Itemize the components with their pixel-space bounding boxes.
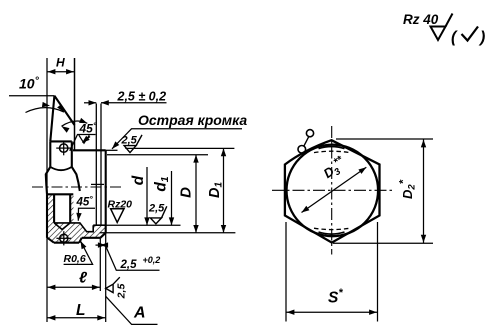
arc center mark (bottom) [56,231,71,245]
dashed thread arc bottom [314,228,350,229]
roughness check 2,5 on L1 [121,135,143,153]
flange top edge + extension [73,149,106,151]
label R0,6 with leader [64,241,93,265]
label 10 degrees with leader [9,75,54,96]
leader to label A [106,296,158,324]
svg-text:): ) [478,29,485,46]
dimension line d1 [153,171,175,225]
extension line L3 (D top) [107,154,208,156]
svg-text:d1: d1 [153,176,172,191]
dimension D2 [398,139,427,243]
svg-text:S*: S* [328,287,343,307]
svg-text:10°: 10° [19,75,40,92]
inscribed circle [287,145,379,237]
svg-text:45°: 45° [79,121,97,136]
svg-text:D2*: D2* [398,179,418,199]
bore line B1 + extension [93,224,106,226]
extension line: head left face / H,l,L left extension [46,58,48,322]
section hatching (head and flange cut area) [47,194,105,242]
dimension H [47,56,75,75]
svg-text:L: L [76,302,85,319]
svg-text:2,5: 2,5 [120,259,138,271]
angle arc 45 degrees (upper) [62,118,97,136]
dimension L [47,302,106,321]
chamfer arc top [319,147,345,149]
head face top edge [50,140,72,142]
dimension D3 diagonal [302,153,367,212]
S extension lines [285,222,287,322]
svg-text:(: ( [451,29,458,46]
head silhouette flares [46,167,80,194]
arc center mark (top) [56,141,71,155]
svg-text:D: D [178,187,195,198]
socket walls [54,194,70,223]
dimension line d [130,167,150,225]
axis center line (left view) [32,186,122,188]
center line horizontal [272,189,393,191]
socket bottom and drill point [54,223,70,230]
short thread line [91,183,104,185]
roughness Rz20 [108,199,133,223]
chamfer arc bottom [319,232,345,234]
head face chamfer arc [50,167,72,170]
sharp edge balloon marker [298,130,314,154]
label 45 degrees (lower) with leader [76,194,96,221]
svg-text:Острая кромка: Острая кромка [138,112,247,128]
boss edge verticals / extensions for 2,5 dim [95,104,97,226]
svg-text:R0,6: R0,6 [64,253,86,265]
extension line: H right / flange junction [74,58,76,150]
svg-text:ℓ: ℓ [79,270,88,287]
svg-text:d: d [130,175,147,185]
svg-text:2,5: 2,5 [121,135,138,147]
head outline: top taper and chamfer [50,96,74,142]
svg-text:2,5 ± 0,2: 2,5 ± 0,2 [117,90,167,104]
head left face (section) [46,194,48,238]
head bottom edge [54,242,79,244]
svg-text:45°: 45° [76,194,94,209]
svg-text:D1: D1 [207,182,225,198]
parenthesized check [451,27,485,47]
flange right face + lower extension [105,150,107,233]
angle arc 10 degrees [26,102,65,113]
general roughness Rz40 [403,12,453,40]
extension line L1 (D1 top) [125,147,234,149]
section boundary line [47,193,73,195]
svg-text:2,5: 2,5 [148,203,165,215]
dimension 2,5 +-0,2 (top) [84,90,167,106]
dimension 2,5 +0,2 (bottom) [96,242,161,271]
svg-text:H: H [56,56,65,70]
45 deg leader/check under label [70,135,96,151]
svg-text:Rz 40: Rz 40 [403,12,439,27]
extension line x=100.3 (l right / chamfer) [99,238,101,291]
ledge edge [82,237,101,239]
rotated roughness check 2,5 on right face [106,277,128,299]
svg-text:+0,2: +0,2 [143,255,161,265]
head face side edges [50,141,72,167]
step up to ledge [79,238,82,243]
flange bottom chamfer A [100,233,105,238]
dimension line D [178,155,199,233]
svg-text:2,5: 2,5 [116,284,128,300]
hexagon head (right view) [285,140,380,242]
D2 extension lines [336,138,433,140]
inner bore ledge (section) [70,223,93,232]
dashed thread arc top [314,151,350,152]
dimension l [47,270,100,291]
roughness check 2,5 on B1 [148,203,167,224]
dimension S [286,287,378,315]
note: Ostraya kromka (sharp edge) with leader [112,112,247,149]
svg-text:A: A [133,305,146,322]
dimension line D1 [207,148,226,232]
center line vertical [331,126,333,255]
chamfer top extension line B2 [100,232,236,234]
svg-text:D3**: D3** [319,153,350,183]
head bottom chamfer [47,238,54,243]
